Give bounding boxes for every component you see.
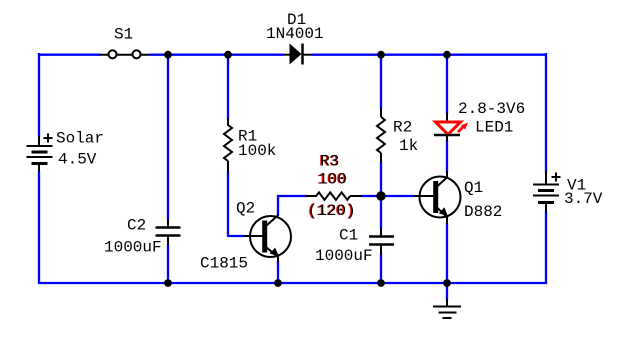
label LED1 [475,119,513,137]
label S1 [114,26,133,44]
capacitor C1 [369,237,394,245]
svg-text:R2: R2 [393,119,412,137]
wire top rail middle segment [150,54,283,56]
svg-text:1k: 1k [399,137,418,155]
label C1815 [200,255,248,273]
label Q2 [236,200,255,218]
svg-text:100: 100 [318,171,347,189]
diode D1 [290,44,303,65]
wire C1 bottom lead [380,245,382,254]
svg-text:3.7V: 3.7V [564,190,603,208]
transistor Q1 [420,177,461,218]
wire C2 top lead [167,219,169,227]
wire C2 bottom lead [167,236,169,245]
wire R1 bottom lead [227,161,229,172]
label 2.8-3V6 [458,100,525,118]
wire C1 branch upper [380,195,382,229]
label R3 [319,153,339,171]
label 1000uF C2 [104,239,162,257]
label 1000uF C1 [315,247,373,265]
label 4.5V [58,151,97,169]
wire diode left lead [283,54,290,56]
battery V1 [533,185,559,203]
wire Q2 base black lead [244,235,263,237]
svg-text:LED1: LED1 [475,119,513,137]
wire Q1 base horizontal [380,195,414,197]
svg-text:1N4001: 1N4001 [266,25,324,43]
wire right rail upper [545,53,547,172]
junction bottom rail at Q2 emitter [274,279,282,287]
svg-text:R3: R3 [320,153,339,171]
label V1 plus [552,173,561,182]
resistor R2 [377,117,385,153]
wire R2 top lead [380,108,382,117]
wire Q2 base horizontal [228,235,245,237]
wire solar battery top lead [38,136,40,147]
wire LED anode lead [446,113,448,123]
junction bottom rail at ground [443,279,451,287]
LED LED1 [434,122,468,135]
wire R1 top lead [227,118,229,126]
svg-text:C1: C1 [339,227,358,245]
wire Q2 collector riser [277,195,279,216]
svg-text:(120): (120) [308,202,356,220]
svg-text:C2: C2 [127,217,146,235]
wire LED to Q1 collector [446,140,448,172]
svg-text:100k: 100k [238,142,276,160]
label solar plus [44,134,53,143]
label Solar [56,130,104,148]
capacitor C2 [156,228,181,236]
wire R2 lower [380,162,382,197]
svg-text:Solar: Solar [56,130,104,148]
wire C2 branch upper [167,54,169,220]
wire V1 bottom lead [545,202,547,212]
wire C2 branch lower [167,244,169,283]
junction bottom rail at C2 [164,279,172,287]
svg-text:1000uF: 1000uF [104,239,162,257]
wire Q1 emitter down [446,223,448,283]
wire C1 branch lower [380,253,382,283]
wire solar battery bottom lead [38,163,40,172]
label 100k [238,142,276,160]
svg-text:2.8-3V6: 2.8-3V6 [458,100,525,118]
wire Q2 emitter down [277,261,279,283]
wire R1 branch upper [227,54,229,119]
label R1 [238,128,257,146]
ground [433,307,461,319]
wire right rail lower [545,211,547,284]
junction top rail at C2 branch [164,51,172,59]
wire LED branch upper [446,54,448,114]
label C1 [339,227,358,245]
junction top rail at R1 branch [224,51,232,59]
label Q1 [464,179,483,197]
resistor R3 [316,192,350,199]
label D882 [464,203,502,221]
battery Solar [27,146,53,164]
wire C1 top lead [380,228,382,236]
wire top rail right segment [312,54,547,56]
wire Q1 base black lead [414,195,434,197]
label 100 [317,171,347,189]
wire Q1 emitter black lead [446,216,448,224]
svg-text:1000uF: 1000uF [315,247,373,265]
label 1N4001 [266,25,324,43]
wire Q1 collector black lead [446,171,448,178]
wire diode right lead [302,54,312,56]
label D1 [287,11,306,29]
wire Q2 emitter black lead [277,255,279,262]
wire R2 branch upper [380,54,382,109]
junction top rail at R2 branch [377,51,385,59]
label C2 [127,217,146,235]
svg-text:C1815: C1815 [200,255,248,273]
svg-text:D882: D882 [464,203,502,221]
label V1 [567,177,586,195]
wire switch black lead [100,54,150,56]
label 1k [399,137,418,155]
wire left rail lower [38,171,40,284]
label R2 [393,119,412,137]
wire R1 to Q2 base vertical [227,171,229,237]
wire R3 right lead [350,195,362,197]
svg-text:4.5V: 4.5V [58,151,97,169]
transistor Q2 [250,215,291,258]
svg-text:Q1: Q1 [464,179,483,197]
wire R2 bottom lead [380,153,382,163]
label 3.7V [564,190,603,208]
wire LED cathode lead [446,134,448,141]
wire bottom rail [38,282,547,284]
wire ground stub [446,283,448,300]
junction node R3 R2 C1 base [376,191,385,200]
wire left rail upper [38,53,40,137]
wire R3 to node junction [361,195,382,197]
wire R3 left lead [306,195,317,197]
switch S1 [109,50,141,58]
svg-text:S1: S1 [114,26,133,44]
svg-text:Q2: Q2 [236,200,255,218]
junction bottom rail at C1 [377,279,385,287]
wire ground black lead [446,299,448,307]
wire V1 top lead [545,171,547,185]
wire top rail left segment [39,54,101,56]
label (120) [307,202,356,220]
junction top rail at LED branch [443,51,451,59]
wire Q2 to R3 horizontal [277,195,307,197]
resistor R1 [224,125,232,161]
